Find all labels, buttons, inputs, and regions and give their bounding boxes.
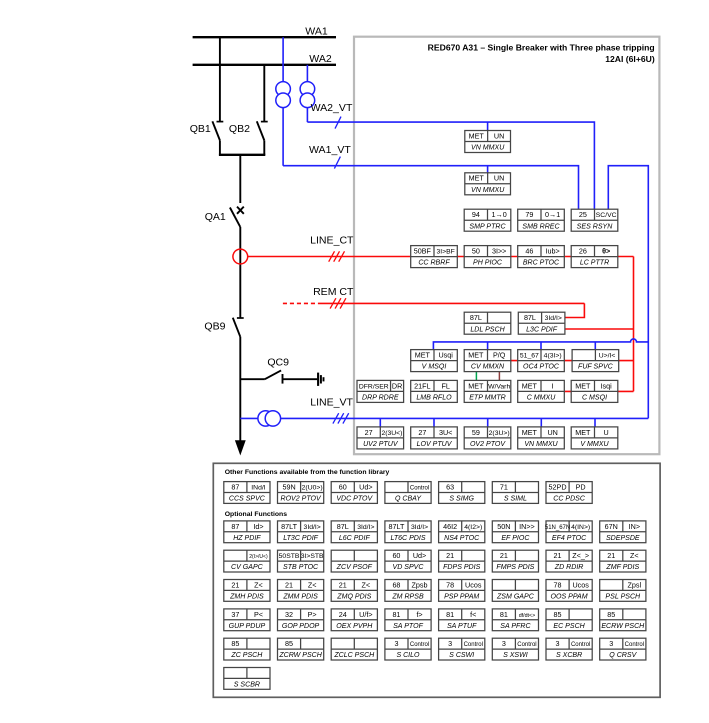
svg-text:df/dt<>: df/dt<>: [519, 613, 536, 619]
wire WA1_VT stub to VN MMXU 2: [487, 166, 489, 173]
function block ZCLC PSCH: [331, 638, 377, 660]
svg-text:EF4 PTOC: EF4 PTOC: [552, 535, 587, 542]
function block PH PIOC: [464, 246, 511, 268]
svg-text:IN>>: IN>>: [519, 522, 535, 531]
svg-text:2(I>/U<): 2(I>/U<): [249, 554, 268, 560]
svg-text:2(3U>): 2(3U>): [489, 430, 510, 437]
svg-text:S SCBR: S SCBR: [234, 681, 260, 688]
svg-text:ZCLC PSCH: ZCLC PSCH: [333, 652, 375, 659]
svg-text:MET: MET: [468, 381, 484, 390]
svg-text:S SIMG: S SIMG: [449, 496, 474, 503]
svg-text:SDEPSDE: SDEPSDE: [606, 535, 640, 542]
function block GUP PDUP: [224, 609, 270, 631]
svg-text:3U<: 3U<: [439, 428, 452, 437]
svg-text:INd/I: INd/I: [251, 484, 265, 491]
svg-text:Control: Control: [625, 642, 644, 648]
svg-text:I: I: [552, 381, 554, 390]
function block VN MMXU: [465, 173, 511, 195]
svg-text:3: 3: [502, 639, 506, 648]
svg-text:Q CRSV: Q CRSV: [609, 652, 637, 659]
svg-text:21: 21: [339, 580, 347, 589]
function block C MSQI: [571, 380, 618, 402]
svg-text:59N: 59N: [282, 482, 295, 491]
function block EC PSCH: [546, 609, 592, 631]
svg-text:GUP PDUP: GUP PDUP: [229, 623, 266, 630]
svg-text:4(IN>): 4(IN>): [571, 524, 590, 531]
function block SMP PTRC: [464, 209, 511, 231]
function block ZM RPSB: [385, 580, 431, 602]
svg-text:V MSQI: V MSQI: [422, 364, 447, 371]
function block SES RSYN: [571, 209, 618, 231]
svg-text:87L: 87L: [337, 522, 349, 531]
svg-text:OC4 PTOC: OC4 PTOC: [523, 364, 560, 371]
function block S XSWI: [492, 638, 538, 660]
svg-text:QB9: QB9: [204, 321, 225, 333]
svg-text:QB1: QB1: [190, 123, 211, 135]
function block DRP RDRE: [357, 380, 404, 402]
svg-text:27: 27: [418, 428, 426, 437]
function block ZMM PDIS: [278, 580, 324, 602]
function block EF4 PTOC: [545, 521, 592, 543]
wire stub FUF SPVC: [594, 342, 596, 350]
svg-text:60: 60: [392, 551, 400, 560]
VT WA1_VT: [276, 82, 291, 108]
svg-text:FUF SPVC: FUF SPVC: [578, 364, 614, 371]
svg-text:C MSQI: C MSQI: [582, 395, 607, 402]
svg-text:f<: f<: [470, 610, 476, 619]
svg-text:Isqi: Isqi: [601, 381, 613, 390]
svg-text:68: 68: [392, 580, 400, 589]
function block GOP PDOP: [278, 609, 324, 631]
function block ZMQ PDIS: [331, 580, 377, 602]
svg-text:RED670 A31 – Single Breaker w: RED670 A31 – Single Breaker with Three p…: [428, 42, 655, 52]
svg-text:ZCV PSOF: ZCV PSOF: [336, 564, 373, 571]
svg-text:PSL PSCH: PSL PSCH: [605, 593, 641, 600]
svg-text:SA PTUF: SA PTUF: [447, 623, 477, 630]
svg-text:ZMF PDIS: ZMF PDIS: [605, 564, 639, 571]
function block VDC PTOV: [331, 482, 377, 504]
svg-text:UN: UN: [494, 174, 504, 183]
svg-text:V MMXU: V MMXU: [580, 441, 609, 448]
svg-text:78: 78: [554, 580, 562, 589]
function block S CSWI: [439, 638, 485, 660]
svg-text:ZMM PDIS: ZMM PDIS: [282, 593, 318, 600]
svg-text:Z<_>: Z<_>: [572, 551, 589, 560]
function block ZSM GAPC: [492, 580, 538, 602]
svg-text:NS4 PTOC: NS4 PTOC: [444, 535, 480, 542]
wire LINE_VT blue bus: [240, 417, 648, 419]
function block SA PTUF: [439, 609, 485, 631]
svg-text:Usqi: Usqi: [438, 351, 453, 360]
CT LINE_CT circle: [233, 249, 248, 264]
svg-text:46: 46: [525, 247, 533, 256]
svg-text:VDC PTOV: VDC PTOV: [336, 496, 373, 503]
function block VN MMXU: [518, 427, 565, 449]
function block Q CBAY: [385, 482, 431, 504]
svg-text:Q CBAY: Q CBAY: [395, 496, 422, 503]
svg-text:4(I2>): 4(I2>): [464, 524, 482, 531]
svg-text:1→0: 1→0: [492, 210, 507, 219]
svg-text:71: 71: [500, 482, 508, 491]
svg-text:S XCBR: S XCBR: [556, 652, 582, 659]
svg-text:Control: Control: [517, 642, 536, 648]
svg-text:f>: f>: [416, 610, 422, 619]
function block UV2 PTUV: [357, 427, 404, 449]
function block OEX PVPH: [331, 609, 377, 631]
svg-text:3: 3: [609, 639, 613, 648]
wire REM CT: [321, 302, 585, 304]
wire red row 5: [565, 390, 634, 392]
svg-text:S XSWI: S XSWI: [503, 652, 528, 659]
wire REM CT into L3C PDIF: [565, 303, 585, 317]
svg-text:Zpsb: Zpsb: [412, 580, 428, 589]
svg-text:DRP RDRE: DRP RDRE: [362, 395, 399, 402]
svg-text:50BF: 50BF: [414, 247, 432, 256]
svg-text:SA PFRC: SA PFRC: [500, 623, 531, 630]
function block ZMH PDIS: [224, 580, 270, 602]
svg-text:21FL: 21FL: [414, 381, 430, 390]
svg-text:QC9: QC9: [267, 356, 289, 368]
phase mark WA2_VT: [335, 117, 341, 129]
svg-text:87L: 87L: [470, 313, 482, 322]
function block L6C PDIF: [331, 521, 377, 543]
svg-text:Other Functions available from: Other Functions available from the funct…: [225, 469, 390, 476]
wire WA2_VT blue: [307, 122, 594, 209]
svg-text:θ>: θ>: [602, 247, 610, 256]
function block LT3C PDIF: [278, 521, 324, 543]
svg-text:L6C PDIF: L6C PDIF: [339, 535, 371, 542]
svg-text:QA1: QA1: [205, 211, 226, 223]
svg-text:3Id/I>: 3Id/I>: [304, 524, 321, 531]
function block LDL PSCH: [464, 312, 511, 334]
svg-text:3: 3: [394, 639, 398, 648]
svg-text:LT6C PDIS: LT6C PDIS: [390, 535, 425, 542]
svg-text:LINE_CT: LINE_CT: [310, 234, 354, 246]
svg-text:MET: MET: [469, 174, 485, 183]
svg-text:OV2 PTOV: OV2 PTOV: [470, 441, 506, 448]
IED box RED670 A31: [354, 37, 659, 455]
svg-text:87: 87: [231, 522, 239, 531]
ground: [318, 373, 323, 386]
svg-text:CC PDSC: CC PDSC: [553, 496, 586, 503]
svg-text:12AI (6I+6U): 12AI (6I+6U): [605, 54, 655, 64]
svg-text:32: 32: [285, 610, 293, 619]
svg-text:87: 87: [231, 482, 239, 491]
svg-text:Control: Control: [464, 642, 483, 648]
svg-text:Ud>: Ud>: [359, 482, 372, 491]
svg-text:ETP MMTR: ETP MMTR: [469, 395, 506, 402]
function block EF PIOC: [492, 521, 538, 543]
function block LT6C PDIS: [385, 521, 431, 543]
function block PSP PPAM: [439, 580, 485, 602]
VT LINE_VT: [258, 411, 281, 426]
svg-text:VD SPVC: VD SPVC: [393, 564, 425, 571]
svg-text:HZ PDIF: HZ PDIF: [233, 535, 261, 542]
function block STB PTOC: [278, 550, 325, 572]
svg-text:Zpsl: Zpsl: [628, 580, 642, 589]
svg-text:0→1: 0→1: [545, 210, 560, 219]
function block BRC PTOC: [518, 246, 565, 268]
svg-text:U/f>: U/f>: [359, 610, 372, 619]
function block ROV2 PTOV: [278, 482, 324, 504]
svg-text:2(3U<): 2(3U<): [381, 430, 402, 437]
wire L3C PDIF to red bus: [565, 328, 634, 330]
other functions box: [213, 463, 660, 697]
svg-text:SES RSYN: SES RSYN: [577, 223, 614, 230]
VT WA2_VT: [300, 82, 315, 108]
svg-text:EC PSCH: EC PSCH: [553, 623, 585, 630]
svg-text:MET: MET: [415, 351, 431, 360]
function block SA PTOF: [385, 609, 431, 631]
svg-text:VN MMXU: VN MMXU: [524, 441, 558, 448]
svg-text:FMPS PDIS: FMPS PDIS: [496, 564, 534, 571]
wire stem mid: [239, 227, 241, 318]
svg-text:P/Q: P/Q: [493, 351, 506, 360]
svg-text:CC RBRF: CC RBRF: [418, 260, 450, 267]
svg-text:DFR/SER: DFR/SER: [359, 383, 389, 390]
svg-text:Control: Control: [571, 642, 590, 648]
svg-text:50N: 50N: [497, 522, 510, 531]
svg-text:Ucos: Ucos: [465, 580, 482, 589]
function block S XCBR: [546, 638, 592, 660]
svg-text:3: 3: [556, 639, 560, 648]
svg-text:59: 59: [472, 428, 480, 437]
svg-text:21: 21: [607, 551, 615, 560]
svg-text:Z<: Z<: [630, 551, 639, 560]
svg-text:ZD RDIR: ZD RDIR: [554, 564, 584, 571]
svg-text:PSP PPAM: PSP PPAM: [444, 593, 479, 600]
svg-text:MET: MET: [468, 351, 484, 360]
function block ECRW PSCH: [600, 609, 646, 631]
svg-text:SMP PTRC: SMP PTRC: [469, 223, 506, 230]
function block CC PDSC: [546, 482, 592, 504]
function block ETP MMTR: [464, 380, 511, 402]
svg-text:3: 3: [448, 639, 452, 648]
svg-text:GOP PDOP: GOP PDOP: [282, 623, 320, 630]
svg-text:UN: UN: [547, 428, 557, 437]
svg-text:21: 21: [446, 551, 454, 560]
svg-text:21: 21: [500, 551, 508, 560]
wire LINE_CT through relay row: [412, 256, 634, 258]
svg-text:FDPS PDIS: FDPS PDIS: [443, 564, 480, 571]
svg-text:67N: 67N: [605, 522, 618, 531]
function block VD SPVC: [385, 550, 431, 572]
svg-text:P>: P>: [308, 610, 317, 619]
wire green P stub: [475, 372, 477, 381]
function block S SCBR: [224, 668, 270, 690]
wire line voltage to synchrocheck: [608, 166, 648, 419]
phase marks REM CT: [330, 298, 346, 308]
svg-text:Ucos: Ucos: [572, 580, 589, 589]
svg-text:BRC PTOC: BRC PTOC: [523, 260, 560, 267]
svg-text:L3C PDIF: L3C PDIF: [526, 326, 558, 333]
function block Q CRSV: [600, 638, 646, 660]
wire stub V MMXU: [594, 418, 596, 427]
wire LINE_CT red: [248, 256, 412, 258]
svg-text:MET: MET: [575, 381, 591, 390]
svg-text:MET: MET: [575, 428, 591, 437]
disconnector QB9: [233, 318, 244, 442]
svg-text:78: 78: [446, 580, 454, 589]
svg-text:MET: MET: [469, 131, 485, 140]
svg-text:85: 85: [285, 639, 293, 648]
svg-text:85: 85: [607, 610, 615, 619]
svg-text:3I>BF: 3I>BF: [436, 249, 454, 256]
svg-text:FL: FL: [441, 381, 449, 390]
wire stub OC4 PTOC: [540, 342, 542, 350]
svg-text:3Id/I>: 3Id/I>: [357, 524, 374, 531]
svg-text:REM CT: REM CT: [313, 286, 354, 298]
svg-text:VN MMXU: VN MMXU: [471, 187, 505, 194]
svg-text:LOV PTUV: LOV PTUV: [417, 441, 453, 448]
svg-text:OEX PVPH: OEX PVPH: [336, 623, 373, 630]
phase mark WA1_VT: [334, 157, 340, 169]
svg-text:OOS PPAM: OOS PPAM: [551, 593, 588, 600]
svg-text:4(3I>): 4(3I>): [544, 353, 562, 360]
wire WA1 VT drop: [282, 37, 284, 166]
function block HZ PDIF: [224, 521, 270, 543]
svg-text:21: 21: [231, 580, 239, 589]
svg-text:27: 27: [365, 428, 373, 437]
svg-text:SC/VC: SC/VC: [596, 212, 617, 219]
function block CV MMXN: [464, 350, 511, 372]
wire maroon Q stub: [498, 372, 500, 381]
wire QB1/QB2 junction bar: [219, 154, 265, 156]
svg-text:WA2: WA2: [309, 53, 332, 65]
svg-text:ZCRW PSCH: ZCRW PSCH: [278, 652, 322, 659]
svg-text:87LT: 87LT: [281, 522, 297, 531]
function block CC RBRF: [411, 246, 458, 268]
function block OC4 PTOC: [518, 350, 565, 372]
svg-text:ECRW PSCH: ECRW PSCH: [601, 623, 645, 630]
svg-text:MET: MET: [522, 428, 538, 437]
svg-text:WA1: WA1: [305, 26, 328, 38]
svg-text:51N_67N: 51N_67N: [545, 525, 570, 531]
svg-text:85: 85: [231, 639, 239, 648]
disconnector QB1: [212, 37, 223, 155]
function block S SIMG: [439, 482, 485, 504]
svg-text:PD: PD: [576, 482, 586, 491]
svg-text:CV MMXN: CV MMXN: [471, 364, 505, 371]
wire WA1_VT blue: [283, 166, 578, 210]
svg-text:DR: DR: [392, 381, 402, 390]
svg-text:Optional Functions: Optional Functions: [225, 511, 288, 518]
wire stub VN MMXU: [540, 418, 542, 427]
svg-text:60: 60: [339, 482, 347, 491]
function block ZCV PSOF: [331, 550, 377, 572]
function block OV2 PTOV: [464, 427, 511, 449]
phase marks LINE_VT: [333, 413, 349, 423]
wire REM CT dashed: [283, 302, 321, 304]
function block OOS PPAM: [546, 580, 592, 602]
svg-text:LMB RFLO: LMB RFLO: [416, 395, 452, 402]
function block V MSQI: [411, 350, 458, 372]
svg-text:46I2: 46I2: [443, 522, 457, 531]
svg-text:81: 81: [446, 610, 454, 619]
svg-text:Control: Control: [410, 485, 429, 491]
function block FMPS PDIS: [492, 550, 538, 572]
svg-text:P<: P<: [254, 610, 263, 619]
function block FDPS PDIS: [439, 550, 485, 572]
svg-text:25: 25: [579, 210, 587, 219]
svg-text:50: 50: [472, 247, 480, 256]
function block S SIML: [492, 482, 538, 504]
svg-text:CV GAPC: CV GAPC: [231, 564, 264, 571]
svg-text:EF PIOC: EF PIOC: [501, 535, 530, 542]
function block PSL PSCH: [600, 580, 646, 602]
svg-text:51_67: 51_67: [520, 353, 539, 360]
svg-text:LINE_VT: LINE_VT: [310, 397, 353, 409]
svg-text:ZM RPSB: ZM RPSB: [391, 593, 424, 600]
svg-text:ZMH PDIS: ZMH PDIS: [229, 593, 264, 600]
wire WA2_VT stub to VN MMXU: [487, 122, 489, 130]
svg-text:SMB RREC: SMB RREC: [522, 223, 560, 230]
disconnector QB2: [257, 65, 268, 155]
svg-text:Ud>: Ud>: [413, 551, 426, 560]
svg-text:LC PTTR: LC PTTR: [580, 260, 609, 267]
svg-text:Id>: Id>: [253, 522, 263, 531]
svg-text:21: 21: [285, 580, 293, 589]
svg-text:Z<: Z<: [362, 580, 371, 589]
svg-text:Iub>: Iub>: [546, 247, 560, 256]
function block LOV PTUV: [411, 427, 458, 449]
svg-text:87LT: 87LT: [389, 522, 405, 531]
function block LMB RFLO: [411, 380, 458, 402]
function block C MMXU: [518, 380, 565, 402]
svg-text:UN: UN: [494, 131, 504, 140]
svg-text:S CSWI: S CSWI: [449, 652, 474, 659]
svg-text:CCS SPVC: CCS SPVC: [229, 496, 266, 503]
function block L3C PDIF: [518, 312, 565, 334]
function block ZC PSCH: [224, 638, 270, 660]
function block ZCRW PSCH: [278, 638, 324, 660]
wire red vertical bus: [633, 257, 635, 392]
svg-text:STB PTOC: STB PTOC: [283, 564, 319, 571]
svg-text:24: 24: [339, 610, 347, 619]
earthing switch QC9: [240, 370, 317, 383]
wire WA2 VT drop: [306, 65, 308, 122]
svg-text:63: 63: [446, 482, 454, 491]
svg-text:3I>>: 3I>>: [492, 247, 506, 256]
busbar WA1: [193, 36, 336, 38]
svg-text:UV2 PTUV: UV2 PTUV: [363, 441, 399, 448]
svg-text:LT3C PDIF: LT3C PDIF: [283, 535, 318, 542]
svg-text:ROV2 PTOV: ROV2 PTOV: [280, 496, 322, 503]
svg-text:LDL PSCH: LDL PSCH: [470, 326, 505, 333]
svg-text:VN MMXU: VN MMXU: [471, 145, 505, 152]
function block ZD RDIR: [546, 550, 592, 572]
svg-text:W/Varh: W/Varh: [488, 383, 510, 390]
svg-text:Z<: Z<: [254, 580, 263, 589]
function block FUF SPVC: [572, 350, 619, 372]
svg-text:U: U: [604, 428, 609, 437]
svg-text:2(U0>): 2(U0>): [302, 484, 323, 491]
function block SMB RREC: [518, 209, 565, 231]
svg-text:ZC PSCH: ZC PSCH: [230, 652, 263, 659]
svg-text:3Id/I>: 3Id/I>: [545, 315, 562, 322]
function block CCS SPVC: [224, 482, 270, 504]
svg-text:85: 85: [554, 610, 562, 619]
function block VN MMXU: [465, 131, 511, 153]
svg-text:C MMXU: C MMXU: [527, 395, 556, 402]
svg-text:SA PTOF: SA PTOF: [393, 623, 423, 630]
wire blue measurement bus: [433, 339, 648, 350]
svg-text:94: 94: [472, 210, 480, 219]
svg-text:S CILO: S CILO: [396, 652, 420, 659]
svg-text:37: 37: [231, 610, 239, 619]
svg-text:WA1_VT: WA1_VT: [309, 144, 351, 156]
phase marks LINE_CT: [329, 251, 345, 261]
